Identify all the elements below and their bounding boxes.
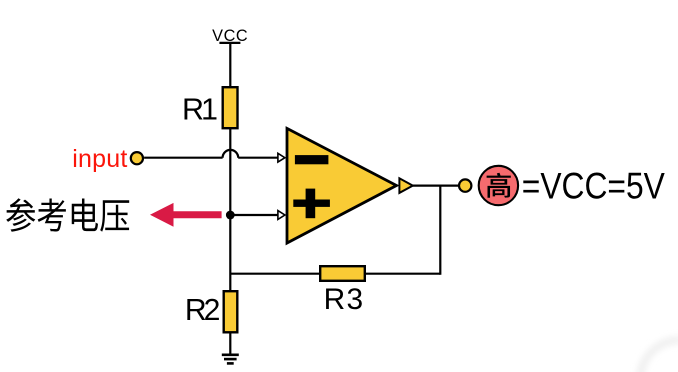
high-state circle [479,166,518,205]
character 高 [487,173,511,198]
svg-text:R2: R2 [185,294,221,327]
corner decoration bottom-right [640,340,678,372]
resistor R3 [320,266,365,281]
ground symbol [222,355,239,364]
feedback wire horizontal [230,273,440,275]
output buffer triangle [399,178,412,193]
junction node [226,211,235,220]
reference voltage arrow [150,203,222,227]
feedback wire vertical [439,186,441,275]
wire hop over vertical [223,150,239,158]
wire hop to inverting input [238,157,278,159]
wire node to non-inverting input [235,214,279,216]
wire R2 to ground [229,332,231,354]
output terminal [459,179,471,191]
label 参考电压 [6,198,129,232]
power rail tick [219,42,240,44]
resistor R2 [224,291,238,332]
input terminal [131,152,143,164]
arrowhead at inverting input [278,153,285,162]
svg-text:R1: R1 [182,93,218,127]
resistor R1 [223,87,238,128]
wire input to hop [144,157,223,159]
svg-text:=VCC=5V: =VCC=5V [522,165,665,206]
wire VCC to R1 [229,44,231,87]
svg-text:input: input [72,145,127,173]
op-amp U1 body [287,128,397,243]
op-amp plus sign [293,189,330,219]
svg-text:R3: R3 [324,283,364,316]
net label VCC [212,27,248,45]
arrowhead at non-inverting input [278,211,285,220]
wire op-amp output [413,185,458,187]
wire R1 to R2 (vertical through node) [229,129,231,293]
op-amp minus sign [295,155,329,164]
